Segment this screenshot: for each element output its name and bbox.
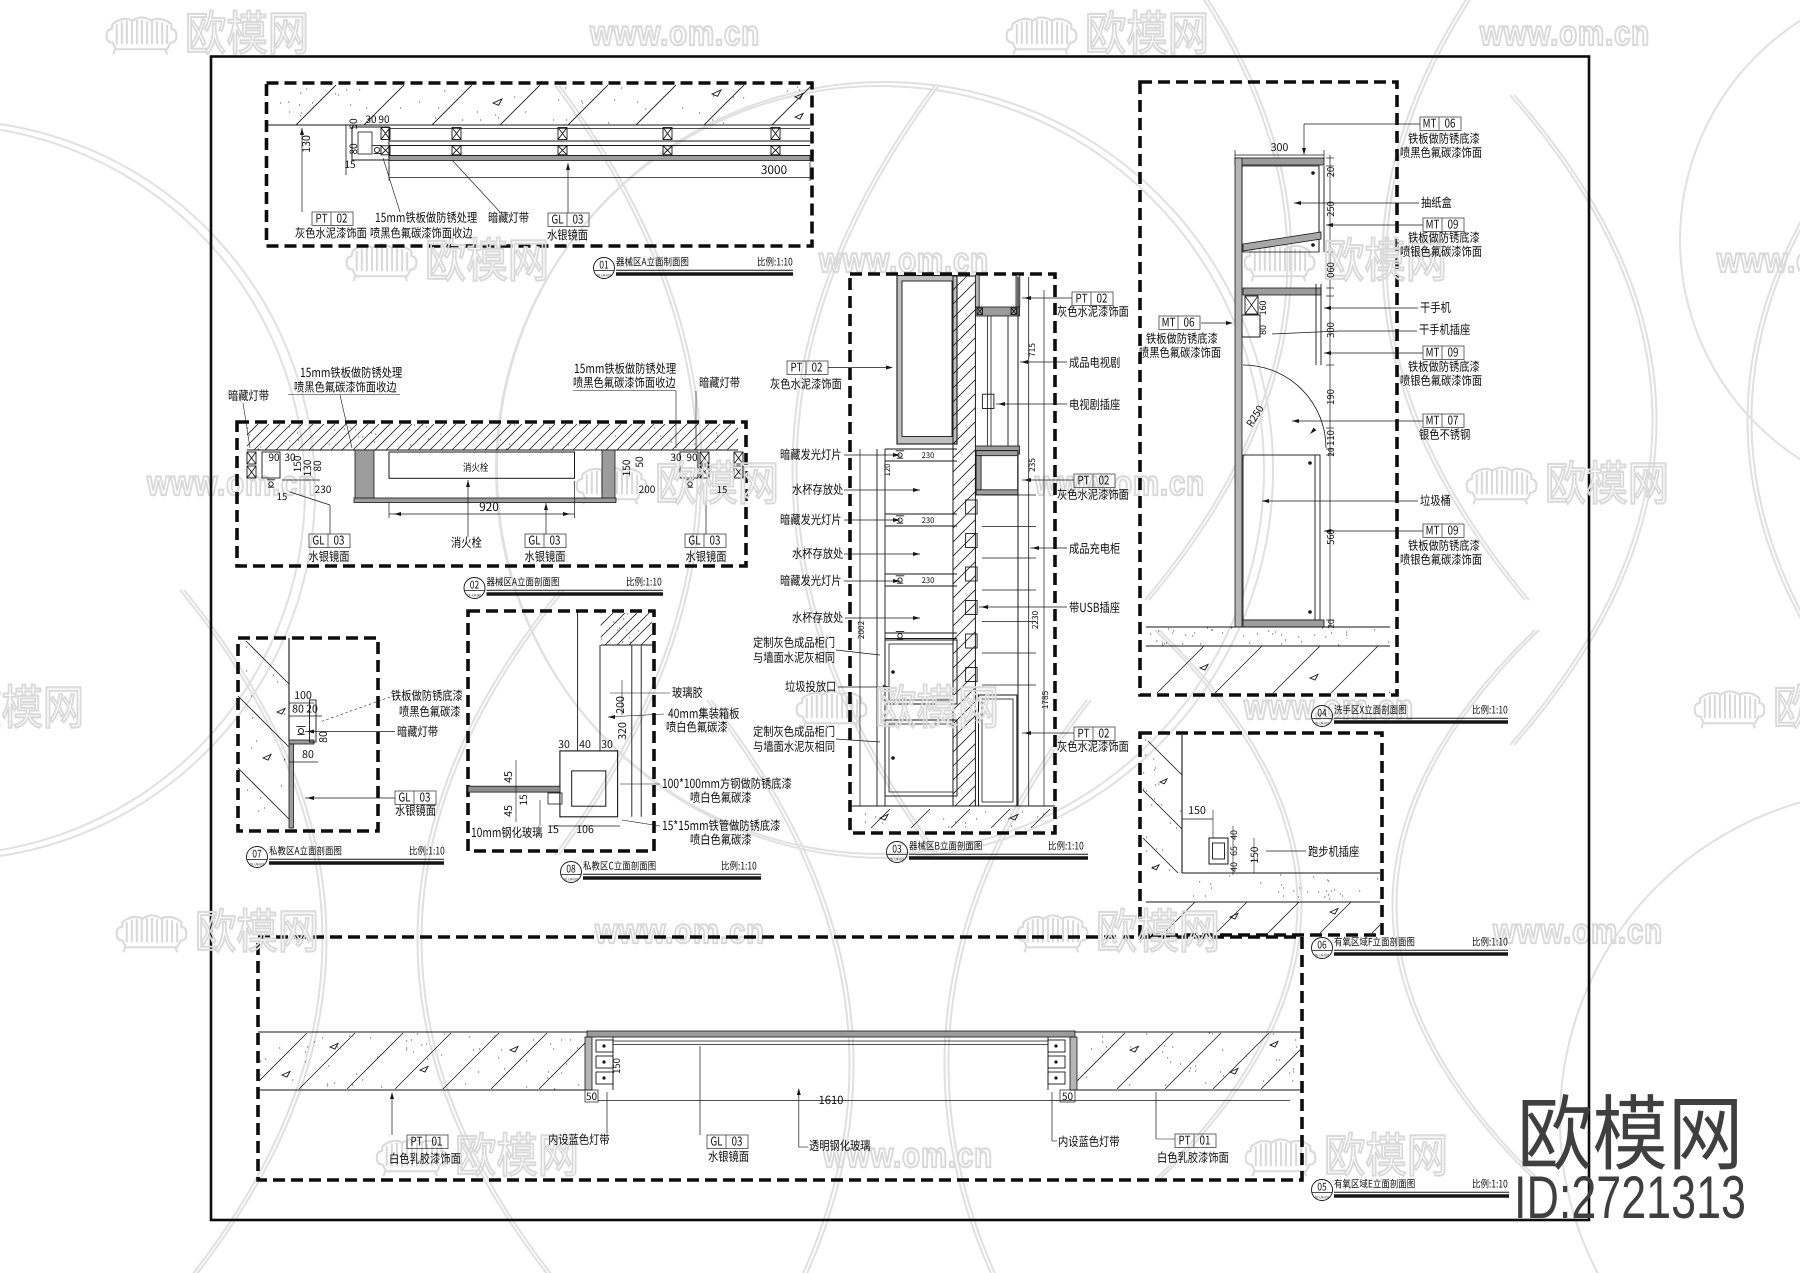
detail 07 wall hatch (246, 641, 289, 684)
labels right of detail 08 / left of detail 03 lower (620, 783, 660, 785)
detail 02 niche jambs (355, 450, 374, 500)
svg-text:www.om.cn: www.om.cn (1492, 912, 1663, 951)
detail 06 label (1266, 850, 1306, 852)
detail 08 glass shelf (468, 786, 560, 792)
svg-text:www.om.cn: www.om.cn (1479, 14, 1650, 53)
detail 04 door swing arc R250 (1243, 365, 1326, 448)
labels above detail 02 (243, 403, 250, 448)
detail 01 label GL03 mirror (548, 213, 589, 227)
detail 04 top slab (1235, 158, 1324, 165)
detail 02 dim 920 (389, 513, 575, 515)
detail 01 assembly dims (301, 128, 303, 212)
title 06 (1312, 938, 1333, 959)
detail 04 lower cabinet (1243, 455, 1320, 620)
detail 02 GL03 labels (309, 534, 350, 548)
detail 03 floor band (850, 805, 1055, 807)
detail 05 left lightbox (585, 1037, 592, 1090)
svg-text:www.om.cn: www.om.cn (1716, 241, 1800, 280)
title 05 (1312, 1180, 1333, 1201)
detail 01 dim 3000 (389, 177, 810, 179)
detail 03 lower cabinets left (885, 640, 957, 704)
detail 05 ceiling strip of recess (587, 1031, 1075, 1037)
svg-text:www.om.cn: www.om.cn (822, 1136, 993, 1175)
detail 03 usb sockets (966, 500, 978, 514)
detail 08 dims (621, 680, 623, 715)
detail 03 niche box (976, 451, 1018, 495)
detail 05 dims (585, 1090, 598, 1102)
detail 03 left wall panel (897, 276, 957, 445)
detail 04 bounding dashed frame (1140, 82, 1397, 695)
detail 05 right lightbox (1070, 1037, 1077, 1090)
detail 04 right labels (1420, 117, 1461, 131)
title 04 (1312, 706, 1333, 727)
detail 04 hand dryer block (1245, 296, 1258, 314)
detail 03 right labels (1072, 292, 1113, 306)
detail 01 label steel edging (383, 158, 400, 212)
detail 08 labels (610, 692, 670, 694)
detail 07 bounding dashed frame (238, 638, 378, 831)
detail 07 ledge (289, 740, 314, 744)
detail 07 dims (289, 702, 314, 704)
detail 03 top recess side strips (975, 275, 979, 307)
svg-text:www.om.cn: www.om.cn (1034, 464, 1205, 503)
detail 04 middle shelf (1243, 288, 1321, 295)
detail 03 shelves (885, 448, 957, 450)
title 01 (594, 258, 615, 279)
detail 05 wall band lines (258, 1031, 1302, 1033)
detail 02 right assembly (700, 452, 709, 464)
detail 04 tissue cabinet (1318, 166, 1320, 252)
detail 03 dim chains (859, 449, 861, 806)
title 03 (887, 842, 908, 863)
detail 01 label hidden light strip (452, 160, 500, 212)
detail 03 TV recess (987, 316, 989, 446)
detail 04 cabinet wall strip (1235, 158, 1242, 627)
detail 03 lower right cabinet (979, 695, 1017, 806)
watermark logo tiles (107, 17, 177, 54)
svg-text:www.om.cn: www.om.cn (594, 912, 765, 951)
detail 06 wall strip hatch (1181, 735, 1183, 873)
detail 03 left labels (844, 454, 900, 456)
detail 01 ceiling slab line (268, 124, 810, 126)
detail 06 floor lines (1182, 872, 1380, 874)
detail 03 central hatched column (953, 276, 975, 806)
detail 07 mirror (289, 744, 294, 828)
detail 06 dims (1182, 818, 1213, 820)
detail 01 stud band 1 (389, 128, 810, 130)
detail 07 labels (320, 697, 390, 722)
detail 04 left label MT06 (1159, 316, 1200, 330)
detail 08 square steel box (560, 751, 618, 817)
detail 02 niche bottom mirror strip (354, 498, 616, 503)
detail 04 vertical dim chain (1329, 155, 1331, 627)
detail 01 left lightbox assembly (352, 127, 389, 160)
detail 03 return shelf (975, 307, 1019, 316)
detail 06 bounding dashed frame (1140, 733, 1382, 935)
detail 04 floor (1146, 626, 1390, 628)
detail 03 left cabinet face lines (876, 449, 878, 806)
title 08 (561, 862, 582, 883)
svg-text:ID:2721313: ID:2721313 (1514, 1164, 1746, 1231)
detail 01 mirror strip (389, 156, 810, 161)
detail 02 fire hydrant box (389, 452, 575, 478)
detail 08 vertical frame lines (577, 612, 579, 751)
outer drawing frame border (211, 57, 1589, 1221)
detail 01 stud band 2 (389, 145, 810, 147)
detail 01 label PT02 (312, 212, 353, 226)
detail 03 charging cabinet shelves (982, 494, 1036, 496)
svg-text:www.om.cn: www.om.cn (146, 464, 317, 503)
detail 02 left assembly (247, 452, 256, 464)
detail 08 bounding dashed frame (468, 611, 654, 851)
detail 02 bounding dashed frame (237, 422, 746, 566)
detail 05 bounding dashed frame (258, 937, 1302, 1180)
svg-text:www.om.cn: www.om.cn (589, 14, 760, 53)
detail 07 wall line (288, 638, 290, 742)
detail 01 bounding dashed frame (267, 83, 813, 246)
title 07 (247, 847, 268, 868)
detail 05 labels (407, 1135, 448, 1149)
detail 04 tissue slot (slanted) (1243, 232, 1321, 251)
detail 03 right wall lines (1028, 277, 1030, 806)
detail 06 socket assembly (1209, 838, 1228, 864)
detail 04 top dim 300 (1235, 154, 1324, 156)
detail 02 hydrant label (467, 480, 469, 537)
title 02 (464, 578, 485, 599)
detail 03 bounding dashed frame (850, 274, 1055, 833)
detail 07 lamp + bracket (296, 726, 305, 734)
detail 05 glass lines (613, 1040, 1048, 1042)
